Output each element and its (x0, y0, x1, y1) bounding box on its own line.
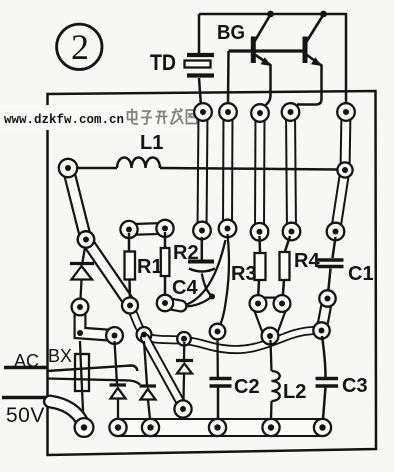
svg-text:C4: C4 (172, 277, 198, 299)
trace trefoil (250, 295, 291, 344)
circled 2 (57, 24, 102, 69)
pad P1 (193, 103, 212, 239)
inductor L2 (271, 340, 280, 419)
transistor BG1 (251, 15, 272, 108)
resistor R1 (125, 233, 136, 300)
子 (141, 111, 152, 124)
pad on wavy (diode riser 3) (177, 332, 191, 346)
pad T-shape left (72, 299, 123, 344)
wire base line (229, 49, 304, 52)
svg-text:R1: R1 (137, 256, 163, 278)
fuse BX (80, 341, 84, 420)
wire AC inner line A (47, 366, 138, 372)
svg-text:R4: R4 (294, 250, 320, 272)
resistor R2 (161, 232, 170, 298)
pad P3 (251, 104, 269, 240)
capacitor C4 (184, 237, 215, 307)
trace diag 2 (78, 231, 130, 303)
trace curved 50V to pad (50, 402, 83, 424)
电 (128, 112, 137, 120)
pad on wavy (diode riser 2) (137, 327, 152, 342)
capacitor C2 (210, 379, 232, 420)
wire AC stub (4, 366, 47, 370)
diode D1 (110, 341, 127, 419)
board outline (48, 91, 377, 455)
svg-text:C1: C1 (348, 263, 374, 285)
diode D3 (176, 342, 193, 400)
wire pad2 curve to C2 pad (218, 234, 230, 330)
watermark band (0, 105, 198, 130)
bottom rail trace (109, 419, 331, 436)
svg-text:BG: BG (217, 22, 245, 44)
wire TD top to rail (198, 14, 201, 53)
junction dot rail left (267, 11, 274, 18)
diode D-left (70, 248, 94, 300)
pad P2 (219, 103, 237, 237)
svg-text:L1: L1 (140, 132, 163, 154)
resistor R3 (255, 236, 266, 300)
pad P4 (282, 103, 301, 240)
diode D2 (140, 341, 157, 419)
wire pad2 curve to R2 trace end (184, 240, 226, 306)
svg-text:R3: R3 (231, 263, 257, 285)
trace R2 bottom (157, 295, 181, 311)
pad C2 top (210, 324, 226, 340)
pad big left (59, 159, 94, 248)
trace wavy long (130, 306, 322, 350)
junction dot C4 net (209, 294, 215, 300)
capacitor C1 (318, 237, 344, 294)
inductor L1 coil (117, 158, 160, 169)
svg-text:TD: TD (150, 50, 176, 75)
pad bottom1 (75, 418, 94, 437)
pad R1 bottom junction (122, 298, 138, 314)
svg-text:2: 2 (71, 27, 89, 67)
wire inner line B (47, 379, 140, 385)
wire rail top (199, 14, 346, 104)
svg-text:BX: BX (48, 346, 72, 366)
pad P5 bent (327, 103, 355, 240)
wire pad2 riser (227, 51, 230, 104)
transducer TD (185, 55, 215, 76)
junction dot rail right (320, 11, 327, 18)
svg-text:www.dzkfw.com.cn: www.dzkfw.com.cn (4, 113, 124, 127)
发 (171, 109, 184, 125)
svg-text:50V: 50V (6, 404, 45, 427)
网 (187, 110, 198, 124)
hole dots (65, 109, 349, 431)
wire C2 riser (216, 338, 219, 377)
resistor R4 (280, 236, 291, 300)
watermark CJK 电子开发网 (128, 109, 198, 125)
trace C1-C3 dogbone (313, 290, 335, 338)
wire L1 line (77, 168, 337, 170)
svg-text:L2: L2 (283, 381, 306, 403)
wire 50V stub (2, 396, 47, 400)
开 (156, 112, 168, 125)
capacitor C3 (316, 336, 339, 419)
pad dogbone R1R2 top (120, 220, 173, 238)
trace diagonal to D3 bottom pad (145, 338, 192, 418)
svg-text:C3: C3 (342, 375, 368, 397)
svg-text:C2: C2 (234, 376, 260, 398)
transistor BG2 (297, 15, 324, 105)
wire TD bottom to pad P1 (199, 78, 201, 106)
